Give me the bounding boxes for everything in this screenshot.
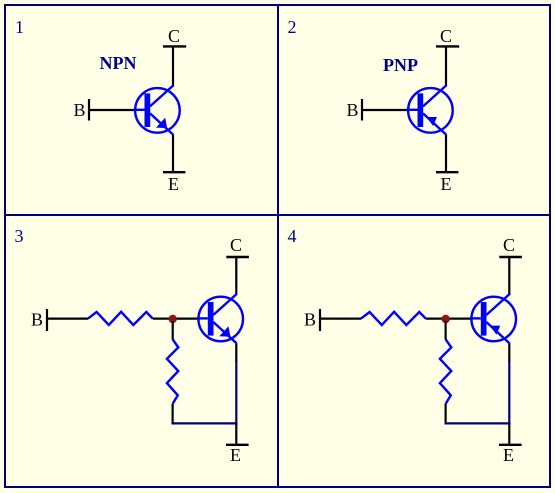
terminal tick B — [88, 99, 90, 121]
terminal tick B — [46, 309, 48, 331]
wire emitter navy segment — [508, 361, 510, 425]
terminal tick B — [361, 99, 363, 121]
wire emitter lower black — [508, 423, 510, 444]
wire collector — [172, 47, 174, 86]
wire below resistor — [172, 404, 174, 425]
transistor Q4 (PNP) — [470, 294, 516, 343]
wire bottom horizontal (navy net) — [445, 422, 511, 424]
svg-text:B: B — [31, 310, 43, 330]
terminal bar E — [226, 444, 249, 446]
resistor R4 (pulldown, vertical) — [440, 339, 451, 404]
wire base left — [320, 318, 361, 320]
wire emitter navy segment — [235, 361, 237, 425]
wire base left — [47, 318, 88, 320]
wire base — [362, 109, 409, 111]
svg-text:B: B — [347, 100, 359, 120]
svg-text:C: C — [168, 26, 180, 46]
svg-text:4: 4 — [288, 226, 297, 246]
svg-text:E: E — [441, 174, 452, 194]
svg-text:C: C — [230, 235, 242, 255]
svg-text:B: B — [304, 310, 316, 330]
transistor Q2 (PNP) — [407, 85, 453, 134]
wire emitter lower black — [235, 423, 237, 444]
svg-text:3: 3 — [15, 226, 24, 246]
terminal bar C — [226, 256, 249, 258]
svg-text:NPN: NPN — [100, 53, 137, 73]
svg-text:E: E — [230, 445, 241, 465]
resistor R1 (base, horizontal) — [88, 312, 153, 325]
wire collector — [508, 258, 510, 295]
svg-text:C: C — [440, 26, 452, 46]
terminal bar E — [436, 171, 458, 173]
node junction dot — [169, 315, 177, 323]
wire node down — [172, 321, 174, 340]
transistor Q3 (NPN) — [197, 294, 243, 343]
wire emitter — [172, 135, 174, 171]
svg-text:2: 2 — [288, 17, 297, 37]
svg-text:E: E — [503, 445, 514, 465]
terminal bar E — [499, 444, 522, 446]
svg-text:C: C — [503, 235, 515, 255]
wire base right — [153, 318, 200, 320]
wire base — [89, 109, 136, 111]
terminal bar E — [163, 171, 185, 173]
divider horizontal — [5, 214, 550, 216]
resistor R2 (pulldown, vertical) — [167, 339, 178, 404]
wire bottom horizontal (navy net) — [172, 422, 238, 424]
transistor Q1 (NPN) — [134, 85, 180, 134]
terminal bar C — [499, 256, 522, 258]
wire node down — [445, 321, 447, 340]
terminal tick B — [319, 309, 321, 331]
resistor R3 (base, horizontal) — [361, 312, 426, 325]
wire base right — [426, 318, 473, 320]
wire emitter upper black — [508, 343, 510, 361]
wire below resistor — [445, 404, 447, 425]
terminal bar C — [436, 45, 459, 47]
svg-text:E: E — [168, 174, 179, 194]
divider vertical — [277, 5, 279, 487]
wire collector — [235, 258, 237, 295]
node junction dot — [442, 315, 450, 323]
terminal bar C — [163, 45, 186, 47]
wire collector — [445, 47, 447, 86]
svg-text:PNP: PNP — [383, 55, 418, 75]
wire emitter upper black — [235, 343, 237, 361]
svg-text:1: 1 — [15, 17, 24, 37]
svg-text:B: B — [74, 100, 86, 120]
wire emitter — [445, 135, 447, 171]
